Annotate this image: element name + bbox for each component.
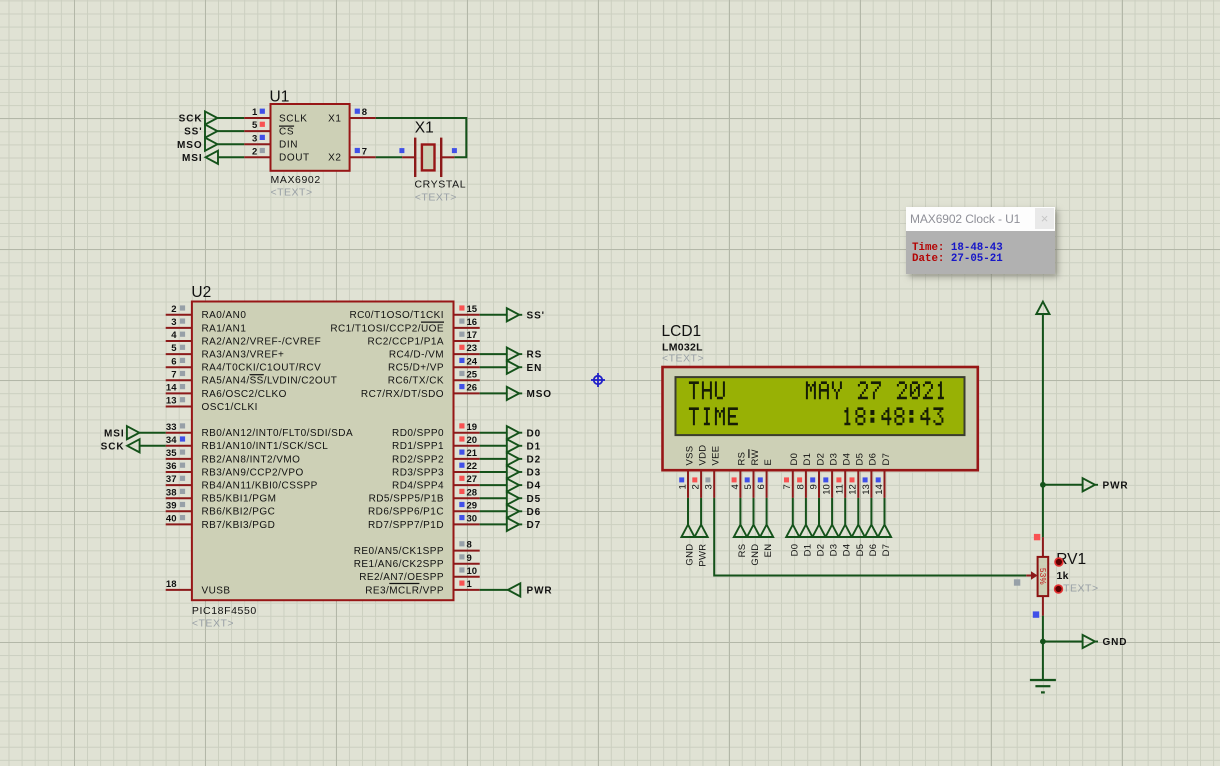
origin marker — [591, 373, 605, 387]
svg-text:GND: GND — [685, 544, 696, 566]
U2 right label RE2/AN7/OESPP — [359, 572, 444, 583]
terminal SS' — [507, 308, 545, 321]
svg-text:RD3/SPP3: RD3/SPP3 — [392, 467, 444, 478]
terminal D1 (LCD side, pin 8) — [799, 525, 813, 557]
svg-text:RA6/OSC2/CLKO: RA6/OSC2/CLKO — [202, 389, 287, 400]
U2 pin 30 (RD7) — [454, 514, 480, 525]
svg-text:26: 26 — [467, 383, 478, 394]
wire SS' to U1 — [218, 130, 245, 132]
wire LCD pin 4 to terminal RS — [739, 498, 741, 525]
svg-text:DOUT: DOUT — [279, 153, 310, 164]
U2 pin 37 (RB4) — [166, 474, 192, 485]
svg-text:13: 13 — [166, 396, 177, 407]
svg-text:8: 8 — [362, 107, 367, 118]
terminal PWR (right) — [1083, 478, 1129, 491]
terminal D3 (LCD side, pin 10) — [826, 525, 840, 557]
U2 pin 13 (OSC1) — [166, 396, 192, 407]
LCD1 pin 14 (D7) — [874, 469, 885, 498]
svg-text:CS: CS — [279, 127, 294, 138]
svg-text:23: 23 — [467, 343, 478, 354]
svg-text:D6: D6 — [527, 507, 542, 518]
wire U2 pin 21 to terminal D2 — [480, 458, 507, 460]
svg-text:7: 7 — [362, 146, 367, 157]
svg-text:VSS: VSS — [684, 446, 695, 466]
svg-text:RS: RS — [737, 452, 748, 466]
wire LCD pin 13 to terminal D6 — [870, 498, 872, 525]
U2 right label RC4/D-/VM — [389, 350, 444, 361]
terminal D5 — [507, 492, 541, 505]
svg-text:D0: D0 — [789, 453, 800, 466]
svg-text:2: 2 — [252, 146, 257, 157]
svg-text:7: 7 — [782, 484, 793, 489]
svg-text:7: 7 — [171, 369, 176, 380]
LCD1 pin 6 (E) — [756, 469, 767, 498]
U2 right label RD6/SPP6/P1C — [368, 507, 444, 518]
wire power terminal down to RV1 — [1042, 314, 1044, 537]
svg-text:D7: D7 — [881, 453, 892, 466]
svg-text:RB2/AN8/INT2/VMO: RB2/AN8/INT2/VMO — [202, 454, 301, 465]
U2 left pin labels — [202, 310, 354, 531]
wire RV1 to ground — [1042, 616, 1044, 680]
U2 right label RC0/T1OSO/T1CKI — [349, 310, 444, 321]
svg-text:4: 4 — [730, 484, 741, 489]
chip U2 body (PIC18F4550) — [192, 302, 454, 601]
U1 pin 7 (X2) — [350, 146, 376, 157]
wire U2 pin 19 to terminal D0 — [480, 432, 507, 434]
svg-text:3: 3 — [704, 484, 715, 489]
U1 pin 5 (CS) — [244, 120, 270, 131]
RV1 top state square — [1034, 534, 1040, 540]
LCD line 1 text THU MAY 27 2021 — [689, 381, 944, 399]
svg-text:D2: D2 — [816, 544, 827, 557]
wire U2 pin 28 to terminal D5 — [480, 497, 507, 499]
wire MSI to U2 — [139, 432, 165, 434]
svg-text:12: 12 — [848, 484, 859, 495]
RV1 wiper state square — [1014, 579, 1020, 585]
svg-text:D1: D1 — [527, 441, 542, 452]
wire U2 pin 1 to terminal PWR — [480, 589, 508, 591]
X1 designator label — [415, 120, 434, 137]
svg-text:D5: D5 — [855, 544, 866, 557]
svg-text:D6: D6 — [868, 453, 879, 466]
U2 right label RC6/TX/CK — [388, 376, 444, 387]
U2 pin 24 (RC5) — [454, 356, 480, 367]
U2 pin 29 (RD6) — [454, 500, 480, 511]
svg-text:RW: RW — [750, 449, 761, 465]
U2 pin 28 (RD5) — [454, 487, 480, 498]
chip U1 body (MAX6902) — [271, 104, 350, 171]
svg-text:RA1/AN1: RA1/AN1 — [202, 323, 247, 334]
crystal X1 right pin — [441, 148, 457, 157]
svg-text:GND: GND — [750, 544, 761, 566]
U2 pin 38 (RB5) — [166, 487, 192, 498]
svg-text:LCD1: LCD1 — [662, 323, 702, 340]
svg-text:RD2/SPP2: RD2/SPP2 — [392, 454, 444, 465]
U2 right label RD1/SPP1 — [392, 441, 444, 452]
svg-text:RD5/SPP5/P1B: RD5/SPP5/P1B — [369, 494, 444, 505]
wire LCD pin 9 to terminal D2 — [818, 498, 820, 525]
U2 pin 14 (RA6) — [166, 383, 192, 394]
svg-text:RC1/T1OSI/CCP2/UOE: RC1/T1OSI/CCP2/UOE — [330, 323, 444, 334]
LCD1 text placeholder — [662, 353, 704, 365]
svg-text:29: 29 — [467, 500, 478, 511]
wire junction to GND terminal — [1043, 641, 1083, 643]
svg-text:1: 1 — [252, 107, 258, 118]
RV1 text placeholder — [1057, 583, 1099, 595]
LCD1 pin 4 (RS) — [730, 469, 741, 498]
svg-text:2: 2 — [171, 304, 176, 315]
svg-text:17: 17 — [467, 330, 478, 341]
U2 pin 15 (RC0) — [454, 304, 480, 315]
RV1 top pin — [1042, 537, 1044, 557]
terminal power (top of RV1 branch) — [1036, 302, 1049, 314]
svg-text:16: 16 — [467, 317, 478, 328]
U1 pin 2 (DOUT) — [244, 146, 270, 157]
potentiometer RV1 body — [1038, 557, 1049, 596]
terminal PWR (U2 side) — [508, 583, 553, 596]
svg-text:2: 2 — [691, 484, 702, 489]
U2 pin 16 (RC1) — [454, 317, 480, 328]
svg-text:36: 36 — [166, 461, 177, 472]
U2 right label RD7/SPP7/P1D — [368, 520, 444, 531]
U2 value label PIC18F4550 — [192, 605, 257, 617]
svg-text:X2: X2 — [328, 153, 341, 164]
wire U2 pin 30 to terminal D7 — [480, 523, 507, 525]
terminal D3 — [507, 465, 541, 478]
svg-text:X1: X1 — [415, 120, 434, 137]
svg-text:MSI: MSI — [182, 153, 202, 164]
svg-text:RA0/AN0: RA0/AN0 — [202, 310, 247, 321]
wire LCD pin 2 to terminal PWR — [700, 498, 702, 525]
svg-text:RE1/AN6/CK2SPP: RE1/AN6/CK2SPP — [354, 559, 444, 570]
U2 pin 26 (RC7) — [454, 383, 480, 394]
svg-text:5: 5 — [743, 484, 754, 489]
U1 value label MAX6902 — [271, 174, 321, 186]
terminal GND (LCD side, pin 5) — [747, 525, 761, 566]
svg-text:MSO: MSO — [177, 140, 202, 151]
U2 pin 35 (RB2) — [166, 448, 192, 459]
svg-text:13: 13 — [861, 484, 872, 495]
terminal D6 (LCD side, pin 13) — [865, 525, 879, 557]
terminal PWR (LCD side, pin 2) — [695, 525, 709, 567]
LCD1 pin 8 (D1) — [795, 469, 806, 498]
svg-text:RS: RS — [527, 350, 543, 361]
U2 pin 21 (RD2) — [454, 448, 480, 459]
U2 pin 23 (RC4) — [454, 343, 480, 354]
LCD1 pin 10 (D3) — [822, 469, 833, 498]
wire U1.X1 to crystal (net X1 top) — [376, 118, 467, 157]
svg-text:OSC1/CLKI: OSC1/CLKI — [202, 402, 258, 413]
svg-text:5: 5 — [171, 343, 177, 354]
svg-text:25: 25 — [467, 369, 478, 380]
U2 pin 4 (RA2) — [166, 330, 192, 341]
svg-text:EN: EN — [527, 363, 543, 374]
LCD1 value label LM032L — [662, 342, 703, 354]
svg-text:53%: 53% — [1038, 568, 1047, 585]
X1 value label CRYSTAL — [415, 179, 467, 191]
U1 pin 3 (DIN) — [244, 133, 270, 144]
wire LCD pin 12 to terminal D5 — [857, 498, 859, 525]
terminal D6 — [507, 505, 541, 518]
U2 pin 25 (RC6) — [454, 369, 480, 380]
svg-text:RB3/AN9/CCP2/VPO: RB3/AN9/CCP2/VPO — [202, 467, 304, 478]
RV1 designator label — [1056, 551, 1086, 568]
terminal D0 — [507, 426, 541, 439]
wire U2 pin 23 to terminal RS — [480, 353, 507, 355]
svg-text:RB1/AN10/INT1/SCK/SCL: RB1/AN10/INT1/SCK/SCL — [202, 441, 329, 452]
LCD1 body (LM032L) — [663, 367, 978, 470]
wire junction to PWR terminal — [1043, 484, 1083, 486]
svg-text:24: 24 — [467, 356, 478, 367]
wire U2 pin 29 to terminal D6 — [480, 510, 507, 512]
terminal MSI (U1 side) — [182, 151, 218, 164]
terminal D1 — [507, 439, 541, 452]
svg-text:9: 9 — [808, 484, 819, 489]
svg-text:D5: D5 — [855, 453, 866, 466]
svg-text:RA2/AN2/VREF-/CVREF: RA2/AN2/VREF-/CVREF — [202, 336, 322, 347]
wire U2 pin 24 to terminal EN — [480, 366, 507, 368]
svg-text:<TEXT>: <TEXT> — [271, 187, 313, 199]
svg-text:14: 14 — [874, 484, 885, 495]
svg-text:21: 21 — [467, 448, 478, 459]
svg-text:RB6/KBI2/PGC: RB6/KBI2/PGC — [202, 507, 276, 518]
svg-text:SCLK: SCLK — [279, 113, 308, 124]
svg-text:22: 22 — [467, 461, 478, 472]
svg-text:D3: D3 — [527, 468, 542, 479]
U2 pin 18 (VUSB) — [166, 579, 192, 590]
U2 VUSB label — [202, 585, 231, 596]
wire U2 pin 20 to terminal D1 — [480, 445, 507, 447]
svg-text:D0: D0 — [789, 544, 800, 557]
svg-text:D3: D3 — [829, 544, 840, 557]
RV1 bottom state square — [1033, 611, 1039, 617]
terminal D2 (LCD side, pin 9) — [812, 525, 826, 557]
terminal RS — [507, 348, 542, 361]
LCD1 pin 11 (D4) — [835, 469, 846, 498]
LCD1 pin 1 (VSS) — [677, 469, 688, 498]
svg-text:VDD: VDD — [697, 445, 708, 466]
U2 pin 40 (RB7) — [166, 514, 192, 525]
popup window MAX6902 Clock - U1 — [906, 207, 1055, 274]
svg-text:RC7/RX/DT/SDO: RC7/RX/DT/SDO — [361, 389, 444, 400]
U2 pin 2 (RA0) — [166, 304, 192, 315]
svg-text:30: 30 — [467, 514, 478, 525]
LCD line 2 text TIME 18:48:43 — [689, 407, 944, 425]
svg-text:33: 33 — [166, 422, 177, 433]
terminal SS' (U1 side) — [184, 125, 217, 138]
svg-text:RS: RS — [737, 544, 748, 558]
terminal GND (LCD side, pin 1) — [681, 525, 695, 566]
U2 right label RE1/AN6/CK2SPP — [354, 559, 444, 570]
wire LCD pin 1 to terminal GND — [687, 498, 689, 525]
U1 text placeholder — [271, 187, 313, 199]
svg-text:9: 9 — [467, 553, 472, 564]
wire U2 pin 27 to terminal D4 — [480, 484, 507, 486]
svg-text:27: 27 — [467, 474, 478, 485]
ground symbol — [1030, 680, 1056, 692]
wire SCK to U2 — [140, 445, 166, 447]
terminal MSO — [507, 387, 552, 400]
terminal MSO (U1 side) — [177, 138, 217, 151]
svg-text:11: 11 — [835, 484, 846, 494]
U2 text placeholder — [192, 618, 234, 630]
LCD1 pin 12 (D5) — [848, 469, 859, 498]
U2 pin 20 (RD1) — [454, 435, 480, 446]
U2 pin 1 (RE3) — [454, 579, 480, 590]
U2 pin 10 (RE2) — [454, 566, 480, 577]
terminal SCK (to U2 RB1) — [101, 439, 140, 452]
wire LCD pin 7 to terminal D0 — [792, 498, 794, 525]
wire LCD pin 11 to terminal D4 — [844, 498, 846, 525]
LCD1 pin 2 (VDD) — [691, 469, 702, 498]
svg-text:15: 15 — [467, 304, 478, 315]
U1 pin 1 (SCLK) — [244, 107, 270, 118]
U2 pin 19 (RD0) — [454, 422, 480, 433]
svg-text:VEE: VEE — [711, 446, 722, 466]
svg-text:RA4/T0CKI/C1OUT/RCV: RA4/T0CKI/C1OUT/RCV — [202, 363, 322, 374]
node GND junction — [1040, 639, 1046, 645]
U2 right label RD0/SPP0 — [392, 428, 444, 439]
svg-text:<TEXT>: <TEXT> — [192, 618, 234, 630]
RV1 bottom pin — [1042, 596, 1044, 616]
svg-text:RD1/SPP1: RD1/SPP1 — [392, 441, 444, 452]
svg-text:U2: U2 — [191, 284, 211, 301]
svg-text:8: 8 — [795, 484, 806, 489]
terminal RS (LCD side, pin 4) — [734, 525, 748, 558]
U2 pin 22 (RD3) — [454, 461, 480, 472]
U2 right label RD4/SPP4 — [392, 481, 444, 492]
svg-text:D3: D3 — [828, 453, 839, 466]
svg-text:SS': SS' — [184, 127, 202, 138]
terminal EN (LCD side, pin 6) — [760, 525, 774, 558]
U2 right label RD2/SPP2 — [392, 454, 444, 465]
svg-text:EN: EN — [763, 544, 774, 558]
U2 right label RE0/AN5/CK1SPP — [354, 546, 444, 557]
svg-text:D4: D4 — [527, 481, 542, 492]
wire LCD pin 5 to terminal GND — [753, 498, 755, 525]
U1 designator label — [270, 89, 290, 106]
U2 pin 27 (RD4) — [454, 474, 480, 485]
svg-text:37: 37 — [166, 474, 177, 485]
U2 right label RC5/D+/VP — [388, 363, 444, 374]
wire MSO to U1 — [218, 143, 245, 145]
svg-text:RB7/KBI3/PGD: RB7/KBI3/PGD — [202, 520, 276, 531]
svg-text:5: 5 — [252, 120, 258, 131]
svg-text:RB0/AN12/INT0/FLT0/SDI/SDA: RB0/AN12/INT0/FLT0/SDI/SDA — [202, 428, 354, 439]
terminal D5 (LCD side, pin 12) — [852, 525, 866, 557]
terminal SCK (U1 side) — [179, 111, 218, 124]
svg-text:20: 20 — [467, 435, 478, 446]
svg-text:MSO: MSO — [527, 389, 552, 400]
wire LCD pin 8 to terminal D1 — [805, 498, 807, 525]
U2 pin 17 (RC2) — [454, 330, 480, 341]
wire SCK to U1 — [218, 117, 245, 119]
svg-text:RD4/SPP4: RD4/SPP4 — [392, 481, 444, 492]
U2 pin 34 (RB1) — [166, 435, 192, 446]
svg-text:RC6/TX/CK: RC6/TX/CK — [388, 376, 444, 387]
svg-text:6: 6 — [756, 484, 767, 489]
svg-text:RA3/AN3/VREF+: RA3/AN3/VREF+ — [202, 350, 285, 361]
wire LCD pin 6 to terminal EN — [766, 498, 768, 525]
RV1 wiper arrow — [1026, 571, 1037, 580]
svg-text:34: 34 — [166, 435, 177, 446]
svg-text:3: 3 — [171, 317, 176, 328]
terminal EN — [507, 361, 542, 374]
svg-text:RE3/MCLR/VPP: RE3/MCLR/VPP — [365, 585, 444, 596]
LCD pin name labels (VSS..D7) — [684, 445, 892, 466]
wire U2 pin 26 to terminal MSO — [480, 392, 507, 394]
svg-text:D7: D7 — [527, 520, 542, 531]
svg-text:E: E — [763, 459, 774, 466]
crystal X1 body — [415, 138, 441, 177]
svg-text:MAX6902: MAX6902 — [271, 174, 321, 186]
terminal D7 (LCD side, pin 14) — [878, 525, 892, 557]
svg-text:CRYSTAL: CRYSTAL — [415, 179, 467, 191]
svg-text:RB4/AN11/KBI0/CSSPP: RB4/AN11/KBI0/CSSPP — [202, 481, 318, 492]
svg-text:D5: D5 — [527, 494, 542, 505]
svg-text:19: 19 — [467, 422, 478, 433]
U2 right label RE3/MCLR/VPP — [365, 584, 444, 597]
svg-text:18: 18 — [166, 579, 177, 590]
svg-text:GND: GND — [1103, 637, 1128, 648]
LCD1 designator label — [662, 323, 702, 340]
U2 designator label — [191, 284, 211, 301]
svg-text:PIC18F4550: PIC18F4550 — [192, 605, 257, 617]
svg-text:1: 1 — [467, 579, 473, 590]
svg-text:8: 8 — [467, 540, 472, 551]
U2 pin 8 (RE0) — [454, 540, 480, 551]
svg-text:38: 38 — [166, 487, 177, 498]
svg-text:D4: D4 — [842, 544, 853, 557]
U2 right label RC7/RX/DT/SDO — [361, 389, 444, 400]
U2 pin 7 (RA5) — [166, 369, 192, 380]
svg-text:RE2/AN7/OESPP: RE2/AN7/OESPP — [359, 572, 444, 583]
svg-text:PWR: PWR — [1103, 480, 1129, 491]
svg-text:DIN: DIN — [279, 140, 298, 151]
svg-text:PWR: PWR — [527, 586, 553, 597]
U1 pin 8 (X1) — [350, 107, 376, 118]
svg-text:VUSB: VUSB — [202, 585, 231, 596]
RV1 value label 1k — [1057, 570, 1069, 582]
terminal MSI (to U2 RB0) — [104, 426, 139, 439]
wire MSI to U1 — [218, 156, 245, 158]
svg-text:28: 28 — [467, 487, 478, 498]
svg-text:14: 14 — [166, 383, 177, 394]
svg-text:D1: D1 — [802, 544, 813, 557]
svg-text:<TEXT>: <TEXT> — [415, 191, 457, 203]
wire U2 pin 15 to terminal SS' — [480, 314, 507, 316]
terminal D4 — [507, 479, 541, 492]
svg-text:D6: D6 — [868, 544, 879, 557]
terminal D7 — [507, 518, 541, 531]
LCD1 pin 7 (D0) — [782, 469, 793, 498]
U2 pin 39 (RB6) — [166, 500, 192, 511]
svg-text:RB5/KBI1/PGM: RB5/KBI1/PGM — [202, 494, 277, 505]
LCD1 pin 9 (D2) — [808, 469, 819, 498]
U2 right label RD3/SPP3 — [392, 467, 444, 478]
terminal D2 — [507, 452, 541, 465]
svg-text:3: 3 — [252, 133, 257, 144]
svg-text:D7: D7 — [881, 544, 892, 557]
svg-text:SCK: SCK — [101, 441, 125, 452]
U2 pin 5 (RA3) — [166, 343, 192, 354]
terminal D0 (LCD side, pin 7) — [786, 525, 800, 557]
U2 right label RD5/SPP5/P1B — [369, 494, 444, 505]
svg-text:1: 1 — [677, 484, 688, 489]
svg-text:SS': SS' — [527, 310, 545, 321]
RV1 increment button — [1055, 558, 1063, 566]
terminal GND (right) — [1083, 635, 1128, 648]
